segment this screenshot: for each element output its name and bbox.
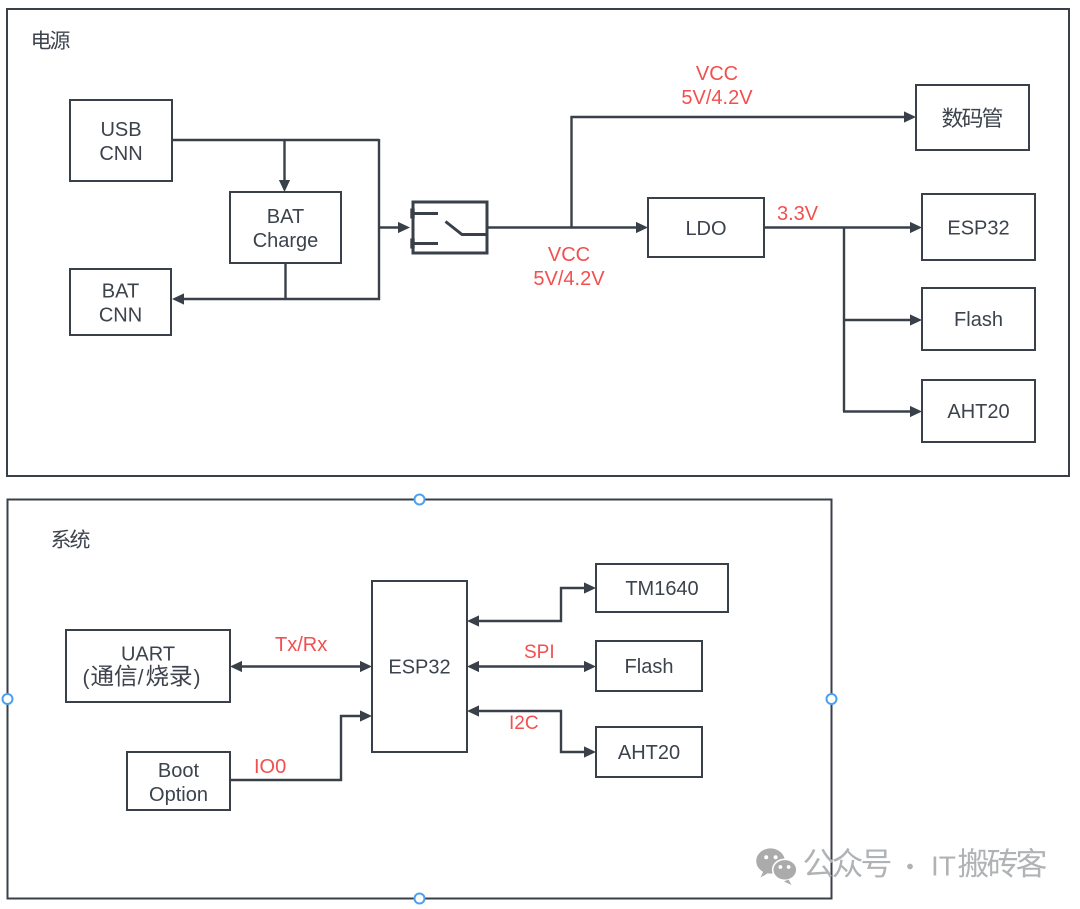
block TM1640 — [596, 564, 728, 612]
system section frame 系统 (selected) — [8, 500, 832, 899]
svg-text:USB: USB — [100, 119, 141, 141]
svg-text:TM1640: TM1640 — [625, 578, 698, 600]
block AHT20 top-section — [922, 380, 1035, 442]
wire SPI ESP32 to Flash bidirectional — [479, 665, 584, 667]
arrowhead I2C into ESP32 — [467, 705, 479, 716]
svg-text:ESP32: ESP32 — [947, 217, 1009, 239]
svg-text:): ) — [194, 667, 201, 690]
arrowhead into ESP32 — [910, 222, 922, 233]
wire branch to switch — [378, 226, 399, 228]
svg-text:Flash: Flash — [625, 656, 674, 678]
svg-text:5V/4.2V: 5V/4.2V — [681, 87, 753, 109]
block ESP32 top-section — [922, 194, 1035, 260]
block ESP32 system-section — [372, 581, 467, 752]
arrowhead into AHT20 top-section — [910, 406, 922, 417]
arrowhead into LDO — [636, 222, 648, 233]
switch top contact stub — [414, 212, 438, 215]
wire return to BAT CNN — [183, 298, 380, 300]
wire Boot Option to ESP32 — [230, 716, 360, 780]
wire vertical rail right of BAT Charge — [378, 139, 380, 300]
wire UART to ESP32 bidirectional — [241, 665, 361, 667]
svg-text:IO0: IO0 — [254, 756, 286, 778]
svg-text:CNN: CNN — [99, 304, 142, 326]
arrowhead boot into ESP32 — [360, 710, 372, 721]
block BAT CNN — [70, 269, 171, 335]
block Boot Option — [127, 752, 230, 810]
arrowhead SPI into Flash — [584, 661, 596, 672]
arrowhead into ESP32 left — [360, 661, 372, 672]
label 系统 — [52, 530, 70, 549]
wire USB CNN to distribution rail — [172, 139, 379, 141]
arrowhead into switch — [398, 222, 410, 233]
watermark separator dot — [907, 864, 913, 870]
watermark wechat icon small bubble — [773, 859, 797, 880]
svg-text:BAT: BAT — [102, 280, 139, 302]
svg-text:Tx/Rx: Tx/Rx — [275, 634, 327, 656]
wire I2C ESP32 to AHT20 — [479, 711, 584, 752]
block USB CNN — [70, 100, 172, 181]
svg-text:VCC: VCC — [696, 63, 738, 85]
arrowhead into UART — [230, 661, 242, 672]
wire LDO to ESP32 — [764, 226, 911, 228]
svg-text:ESP32: ESP32 — [388, 656, 450, 678]
arrowhead into AHT20 — [584, 746, 596, 757]
svg-text:5V/4.2V: 5V/4.2V — [533, 268, 605, 290]
switch lever — [446, 222, 488, 235]
switch component body — [413, 202, 487, 253]
selection handle right — [827, 694, 837, 704]
block AHT20 system-section — [596, 727, 702, 777]
watermark text 公众号 — [804, 849, 833, 877]
switch terminal tick top — [410, 209, 414, 219]
block Flash top-section — [922, 288, 1035, 350]
wire BAT Charge bottom drop — [284, 263, 286, 300]
arrowhead into BAT Charge — [279, 180, 290, 192]
block Flash system-section — [596, 641, 702, 691]
svg-text:Option: Option — [149, 784, 208, 806]
svg-text:AHT20: AHT20 — [618, 742, 680, 764]
svg-text:/: / — [138, 667, 144, 690]
watermark wechat icon big bubble — [756, 848, 785, 873]
wire branch to AHT20 — [843, 410, 911, 412]
svg-text:I2C: I2C — [509, 713, 539, 734]
arrowhead SPI into ESP32 — [467, 661, 479, 672]
wire 3.3V rail down — [843, 227, 845, 412]
svg-text:3.3V: 3.3V — [777, 203, 819, 225]
svg-text:CNN: CNN — [99, 143, 142, 165]
svg-text:VCC: VCC — [548, 244, 590, 266]
selection handle left — [3, 694, 13, 704]
watermark text 搬砖客 — [958, 848, 988, 878]
arrowhead into 数码管 — [904, 111, 916, 122]
block 数码管 — [916, 85, 1029, 150]
svg-text:LDO: LDO — [685, 218, 726, 240]
block BAT Charge — [230, 192, 341, 263]
arrowhead into Flash — [910, 314, 922, 325]
switch bottom contact stub — [414, 242, 438, 245]
svg-text:Flash: Flash — [954, 309, 1003, 331]
arrowhead into BAT CNN — [172, 293, 184, 304]
svg-text:SPI: SPI — [524, 642, 555, 663]
arrowhead into ESP32 right (from TM1640 net) — [467, 615, 479, 626]
label 电源 — [33, 30, 50, 49]
svg-text:(: ( — [83, 667, 90, 690]
svg-text:Charge: Charge — [253, 230, 319, 252]
svg-text:BAT: BAT — [267, 206, 304, 228]
selection handle bottom — [415, 894, 425, 904]
wire switch output to LDO — [487, 226, 637, 228]
switch terminal tick bottom — [410, 239, 414, 249]
svg-text:IT: IT — [931, 850, 956, 881]
watermark wechat icon small bubble eyes — [779, 865, 783, 869]
block LDO — [648, 198, 764, 257]
power section frame 电源 — [7, 9, 1069, 476]
wire ESP32 to TM1640 — [479, 588, 584, 621]
block UART — [66, 630, 230, 702]
wire branch to Flash — [844, 319, 911, 321]
selection handle top — [415, 495, 425, 505]
wire branch down to BAT Charge — [283, 139, 285, 181]
wire junction up to seven-seg — [570, 116, 572, 228]
svg-text:Boot: Boot — [158, 760, 200, 782]
svg-text:UART: UART — [121, 643, 175, 665]
watermark wechat icon big bubble eyes — [764, 855, 768, 859]
wire across to seven-seg display — [571, 116, 906, 118]
svg-text:AHT20: AHT20 — [947, 401, 1009, 423]
arrowhead into TM1640 — [584, 582, 596, 593]
